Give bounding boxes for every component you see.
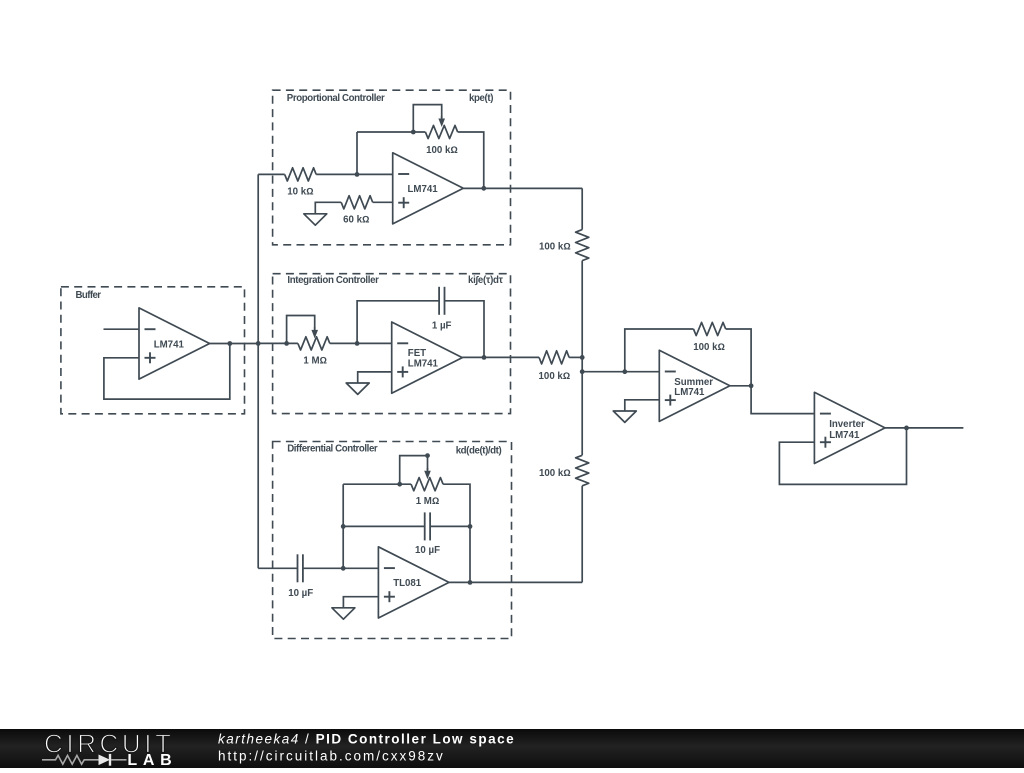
wire int noninverting to ground bbox=[358, 372, 392, 383]
svg-text:10 µF: 10 µF bbox=[415, 545, 440, 556]
node prop pot left junction bbox=[411, 130, 416, 135]
wire int to inverting input bbox=[330, 342, 392, 344]
svg-text:kpe(t): kpe(t) bbox=[469, 93, 494, 104]
svg-text:LAB: LAB bbox=[127, 752, 171, 768]
ground summer bbox=[613, 411, 636, 422]
wire prop to inverting input bbox=[316, 173, 393, 175]
capacitor C2 10 &#181;F input bbox=[297, 554, 299, 582]
wire summer to inverter bbox=[751, 386, 814, 414]
svg-text:100 kΩ: 100 kΩ bbox=[539, 371, 571, 382]
wire int input bbox=[258, 342, 298, 344]
wire summing bus top bbox=[581, 188, 583, 229]
node prop inverting input junction bbox=[355, 172, 360, 177]
wire diff vertical riser bbox=[342, 484, 344, 568]
potentiometer R2 100 k&#8486; bbox=[425, 125, 457, 138]
wire prop input bbox=[258, 173, 285, 175]
node summing bus summer junction bbox=[580, 369, 585, 374]
wire prop feedback horizontal bbox=[357, 131, 425, 133]
node buffer feedback junction bbox=[227, 341, 232, 346]
potentiometer R6 1 M&#8486; bbox=[411, 478, 443, 491]
node inverter output junction bbox=[904, 426, 909, 431]
wire int output bbox=[462, 356, 539, 358]
wire summer feedback to output bbox=[726, 329, 751, 386]
op-amp U3 FET LM741 bbox=[392, 322, 463, 393]
capacitor C3 10 &#181;F feedback bbox=[424, 512, 426, 540]
wire summer feedback up bbox=[625, 329, 694, 372]
svg-text:1 µF: 1 µF bbox=[432, 321, 452, 332]
wire prop feedback vertical bbox=[356, 132, 358, 174]
op-amp U6 Inverter LM741 bbox=[814, 392, 885, 463]
op-amp U1 buffer LM741 bbox=[139, 308, 210, 379]
resistor R9 100 k&#8486; feedback bbox=[694, 322, 726, 335]
node diff pot left junction bbox=[397, 482, 402, 487]
node int output junction bbox=[482, 355, 487, 360]
svg-text:Inverter: Inverter bbox=[829, 419, 865, 430]
wire buffer inverting input stub bbox=[104, 328, 140, 330]
wire diff riser to pot bbox=[343, 483, 411, 485]
op-amp U5 Summer LM741 bbox=[659, 350, 730, 421]
svg-text:ki∫e(τ)dτ: ki∫e(τ)dτ bbox=[468, 275, 504, 286]
svg-text:FET: FET bbox=[408, 348, 426, 359]
wire summing bus bottom bbox=[581, 486, 583, 583]
svg-text:LM741: LM741 bbox=[408, 359, 439, 370]
node summer output junction bbox=[749, 383, 754, 388]
wire diff cap feedback bbox=[343, 525, 425, 527]
resistor R1 10 k&#8486; bbox=[285, 168, 316, 181]
node diff pot wiper junction bbox=[425, 453, 430, 458]
node int feedback junction bbox=[355, 341, 360, 346]
wire main input bus vertical bbox=[257, 174, 259, 568]
svg-text:60 kΩ: 60 kΩ bbox=[343, 215, 369, 226]
svg-text:LM741: LM741 bbox=[674, 387, 705, 398]
node int pot left junction bbox=[284, 341, 289, 346]
svg-text:kartheeka4 / PID Controller Lo: kartheeka4 / PID Controller Low space bbox=[218, 732, 515, 747]
wire summer noninverting to ground bbox=[625, 400, 660, 411]
wire inverter output bbox=[885, 427, 963, 429]
resistor R7 100 k&#8486; top bbox=[576, 230, 589, 261]
wire int cap to output bbox=[445, 301, 485, 358]
wire diff cap to inverting input bbox=[303, 567, 378, 569]
wire diff output bbox=[449, 581, 582, 583]
wire diff pot to right rail bbox=[443, 484, 470, 582]
resistor R8 100 k&#8486; bottom bbox=[576, 455, 589, 485]
node diff cap junction left bbox=[341, 524, 346, 529]
wire summer output bbox=[730, 385, 751, 387]
wire prop pot to output bbox=[458, 132, 484, 188]
svg-text:100 kΩ: 100 kΩ bbox=[693, 342, 725, 353]
node prop output junction bbox=[481, 186, 486, 191]
node diff input junction bbox=[341, 566, 346, 571]
svg-text:100 kΩ: 100 kΩ bbox=[539, 241, 571, 252]
op-amp U2 prop LM741 bbox=[393, 153, 464, 224]
wire summer inverting input bbox=[582, 371, 659, 373]
wire 60k to noninverting input bbox=[373, 201, 393, 203]
ground diff bbox=[332, 608, 355, 619]
svg-text:100 kΩ: 100 kΩ bbox=[426, 145, 458, 156]
wire summing bus middle bbox=[581, 261, 583, 456]
wire inverter feedback loop bbox=[779, 428, 906, 485]
svg-text:Proportional Controller: Proportional Controller bbox=[287, 93, 385, 104]
svg-text:Buffer: Buffer bbox=[76, 290, 102, 301]
wire diff input bbox=[258, 567, 297, 569]
logo resistor-diode symbol bbox=[42, 755, 99, 764]
wire buffer output bbox=[209, 343, 258, 345]
svg-text:10 kΩ: 10 kΩ bbox=[287, 187, 313, 198]
svg-text:http://circuitlab.com/cxx98zv: http://circuitlab.com/cxx98zv bbox=[218, 749, 445, 764]
node diff cap junction right bbox=[468, 524, 473, 529]
wire int feedback up bbox=[357, 301, 439, 344]
svg-text:1 MΩ: 1 MΩ bbox=[416, 496, 440, 507]
ground prop bbox=[304, 214, 327, 225]
resistor R5 100 k&#8486; middle bbox=[539, 351, 569, 364]
ground int bbox=[346, 383, 369, 394]
node diff output junction bbox=[468, 580, 473, 585]
svg-text:100 kΩ: 100 kΩ bbox=[539, 468, 571, 479]
dashed box Proportional Controller bbox=[273, 90, 511, 245]
wire 60k to ground bbox=[315, 202, 341, 214]
svg-text:1 MΩ: 1 MΩ bbox=[303, 355, 327, 366]
wire diff noninverting to ground bbox=[343, 597, 378, 608]
svg-text:Differential Controller: Differential Controller bbox=[287, 444, 378, 455]
resistor R3 60 k&#8486; bbox=[341, 196, 372, 209]
op-amp U4 TL081 bbox=[378, 547, 449, 618]
svg-text:10 µF: 10 µF bbox=[288, 588, 313, 599]
dashed box Differential Controller bbox=[273, 442, 512, 639]
capacitor C1 1 &#181;F bbox=[438, 287, 440, 315]
dashed box Integration Controller bbox=[273, 274, 511, 414]
svg-text:LM741: LM741 bbox=[408, 184, 439, 195]
svg-text:kd(de(t)/dt): kd(de(t)/dt) bbox=[456, 445, 502, 456]
node bus to integrator tap bbox=[256, 341, 261, 346]
node summer feedback junction bbox=[622, 369, 627, 374]
svg-text:LM741: LM741 bbox=[154, 339, 185, 350]
wire buffer feedback loop bbox=[104, 344, 230, 400]
wire mid resistor to bus bbox=[569, 356, 582, 358]
node summing bus mid junction bbox=[580, 355, 585, 360]
dashed box Buffer bbox=[61, 287, 245, 414]
svg-text:LM741: LM741 bbox=[829, 430, 860, 441]
footer black bar bbox=[0, 729, 1024, 768]
wire prop output bbox=[463, 187, 582, 189]
wire diff cap to right rail bbox=[430, 525, 470, 527]
svg-text:TL081: TL081 bbox=[393, 578, 422, 589]
svg-text:Integration Controller: Integration Controller bbox=[287, 275, 379, 286]
potentiometer R4 1 M&#8486; bbox=[298, 337, 330, 350]
